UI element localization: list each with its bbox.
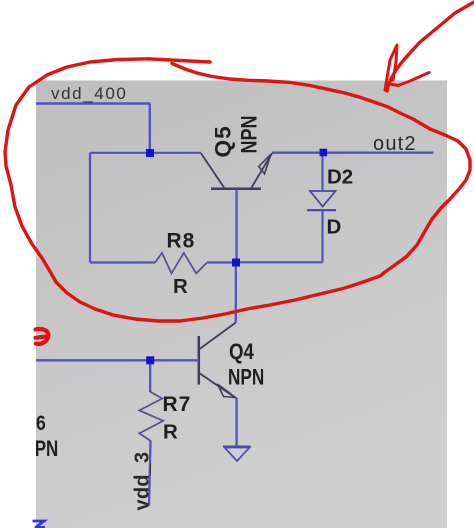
- svg-text:D: D: [327, 216, 342, 239]
- wire to R8: [90, 261, 155, 263]
- wire Q4 collector vertical: [235, 262, 237, 322]
- wire Q4 base horizontal: [36, 359, 199, 361]
- blue z glyph bottom left: [33, 521, 46, 528]
- transistor Q4 collector diagonal: [199, 323, 236, 350]
- wire junction to diode bottom: [236, 261, 323, 263]
- svg-text:R7: R7: [163, 393, 192, 416]
- wire vdd_400 vertical drop: [149, 104, 151, 154]
- diode D2 bar: [307, 209, 336, 211]
- wire vdd_400 horizontal: [36, 102, 150, 104]
- wire Q4 emitter to ground: [235, 398, 237, 447]
- junction node out2/diode: [320, 149, 328, 157]
- wire left branch vertical: [89, 153, 91, 263]
- wire diode top vertical: [321, 153, 323, 192]
- transistor Q5 base bar: [211, 188, 261, 191]
- wire R8 to junction: [207, 261, 237, 263]
- svg-text:out2: out2: [373, 133, 417, 155]
- red arrow right barb: [389, 73, 429, 86]
- wire junction to R7: [149, 360, 151, 392]
- svg-text:NPN: NPN: [23, 437, 59, 462]
- transistor Q4 base bar: [198, 336, 201, 385]
- ground bar: [223, 446, 251, 448]
- svg-text:NPN: NPN: [238, 115, 262, 153]
- resistor R7 zigzag: [139, 392, 163, 441]
- svg-text:vdd_400: vdd_400: [51, 84, 127, 103]
- resistor R8 zigzag: [155, 253, 207, 274]
- svg-text:Q4: Q4: [229, 341, 255, 365]
- diode D2 triangle: [310, 191, 336, 207]
- svg-text:R: R: [173, 275, 188, 298]
- transistor Q4 emitter arrowhead: [218, 384, 236, 398]
- transistor Q4 emitter diagonal: [200, 373, 236, 398]
- wire R7 to vdd_3: [149, 441, 151, 506]
- svg-text:R: R: [163, 421, 178, 444]
- transistor Q5 emitter diagonal: [252, 153, 273, 187]
- red pen-start curl: [36, 329, 49, 344]
- wire diode bottom vertical: [321, 211, 323, 263]
- red arrow shaft: [387, 2, 474, 91]
- wire out2: [272, 152, 434, 154]
- svg-text:Q5: Q5: [211, 125, 236, 157]
- ground triangle: [225, 448, 250, 462]
- junction node R8/diode/Q5/Q4: [232, 259, 240, 267]
- wire Q5 base stub: [235, 189, 237, 263]
- red annotation loop: [5, 59, 470, 321]
- wire upper rail left: [90, 152, 201, 154]
- junction node vdd_400/rail: [146, 149, 154, 157]
- svg-text:Q6: Q6: [22, 412, 46, 436]
- svg-text:D2: D2: [327, 166, 353, 189]
- transistor Q5 collector diagonal: [201, 153, 224, 187]
- transistor Q5 emitter arrowhead: [259, 154, 271, 174]
- svg-text:R8: R8: [167, 230, 196, 253]
- junction node Q4 base/R7: [146, 356, 154, 364]
- schematic gray canvas: [36, 81, 447, 528]
- red arrow left barb spike: [385, 45, 397, 90]
- svg-text:vdd_3: vdd_3: [132, 452, 154, 511]
- svg-text:NPN: NPN: [228, 366, 264, 391]
